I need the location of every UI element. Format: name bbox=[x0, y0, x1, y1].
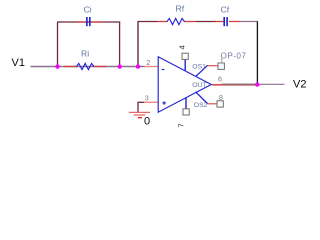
svg-text:OP-07: OP-07 bbox=[221, 51, 247, 60]
svg-text:2: 2 bbox=[146, 58, 150, 67]
svg-text:Cf: Cf bbox=[221, 5, 230, 15]
svg-text:Ri: Ri bbox=[81, 49, 89, 59]
svg-text:OS1: OS1 bbox=[192, 63, 206, 70]
svg-text:V2: V2 bbox=[293, 79, 306, 91]
svg-text:8: 8 bbox=[219, 93, 223, 102]
svg-text:Ci: Ci bbox=[84, 5, 92, 15]
svg-text:Rf: Rf bbox=[176, 4, 185, 14]
svg-text:V1: V1 bbox=[12, 57, 25, 69]
svg-text:3: 3 bbox=[145, 93, 149, 102]
svg-text:6: 6 bbox=[218, 75, 222, 84]
svg-text:1: 1 bbox=[220, 57, 224, 66]
svg-text:0: 0 bbox=[144, 115, 150, 127]
svg-text:OUT: OUT bbox=[192, 82, 206, 89]
svg-text:7: 7 bbox=[176, 123, 185, 127]
svg-text:4: 4 bbox=[177, 45, 186, 49]
svg-text:OS2: OS2 bbox=[194, 102, 208, 109]
